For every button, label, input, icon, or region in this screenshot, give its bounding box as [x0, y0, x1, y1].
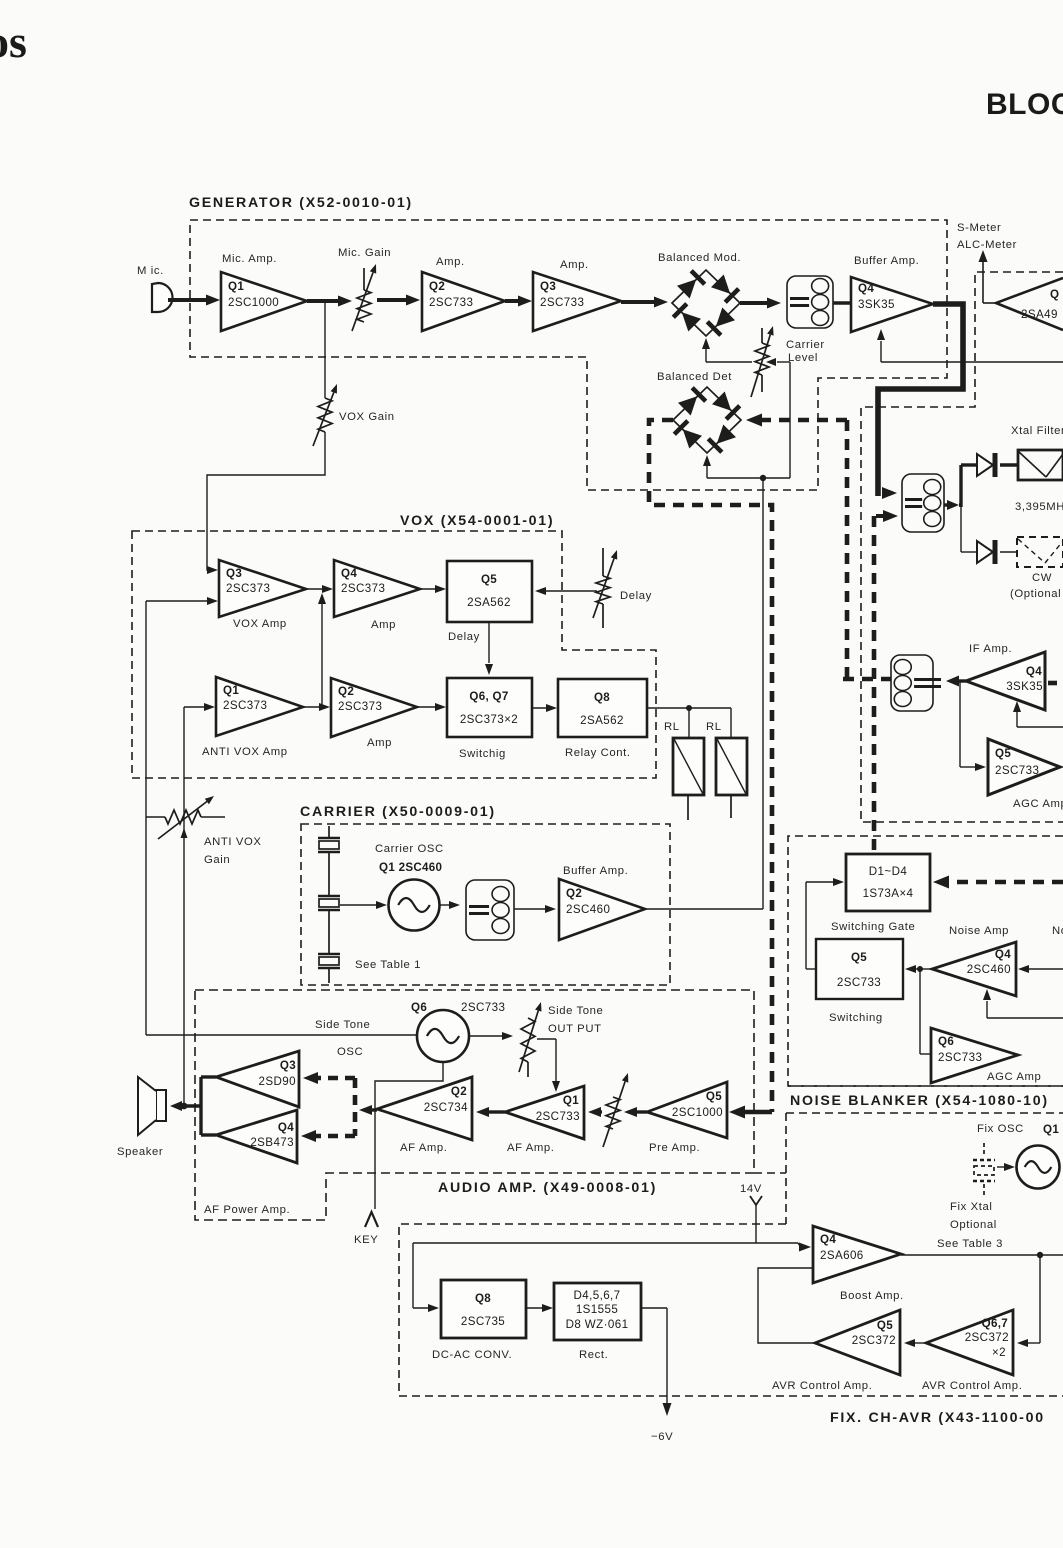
power transistor Q3 2SD90: [216, 1051, 299, 1107]
crystal X1: [318, 838, 340, 852]
wire rectifier to -6V: [641, 1308, 672, 1416]
heavy dashed link to T2 coil: [843, 677, 891, 682]
wire carrier osc riser: [762, 478, 764, 909]
svg-text:AF Amp.: AF Amp.: [507, 1142, 555, 1154]
wire audio bus left vertical: [145, 601, 147, 1035]
wire boost amp output rail: [901, 1252, 1063, 1258]
wire Q3 to balanced modulator: [621, 297, 668, 308]
thick wire Q4 buffer output to IF transformer T2 (transmit path): [878, 304, 963, 499]
svg-text:Q4: Q4: [278, 1121, 294, 1134]
IF transformer T2: [902, 474, 944, 532]
svg-text:GENERATOR (X52-0010-01): GENERATOR (X52-0010-01): [189, 195, 413, 211]
svg-text:ANTI VOX: ANTI VOX: [204, 836, 262, 848]
svg-text:Q5: Q5: [706, 1090, 722, 1103]
dashed band noise blanker title top: [788, 1085, 1063, 1087]
svg-text:Fix OSC: Fix OSC: [977, 1123, 1024, 1135]
section title FIX CH-AVR: [830, 1410, 1045, 1426]
svg-text:Q2: Q2: [451, 1085, 467, 1098]
svg-text:AVR Control Amp.: AVR Control Amp.: [772, 1380, 872, 1392]
dashed link audio box to noise blanker edge: [754, 1172, 786, 1174]
heavy dashed receive line into balanced det: [746, 414, 847, 427]
wire mic to Q1: [168, 295, 220, 306]
svg-text:Q8: Q8: [475, 1292, 491, 1305]
svg-text:AVR Control Amp.: AVR Control Amp.: [922, 1380, 1022, 1392]
wire carrier into balanced det bottom: [703, 455, 790, 478]
svg-text:Q3: Q3: [540, 280, 556, 293]
crystal X2: [318, 896, 340, 910]
svg-text:NOISE BLANKER (X54-1080-10): NOISE BLANKER (X54-1080-10): [790, 1093, 1049, 1109]
svg-text:Pre Amp.: Pre Amp.: [649, 1142, 700, 1154]
section title AUDIO AMP: [438, 1180, 657, 1196]
svg-text:2SC373: 2SC373: [223, 699, 267, 712]
svg-text:2SC733: 2SC733: [536, 1110, 580, 1123]
svg-text:Level: Level: [788, 352, 818, 364]
svg-text:2SC373: 2SC373: [226, 582, 270, 595]
svg-text:Q4: Q4: [820, 1233, 836, 1246]
svg-text:2SC372: 2SC372: [965, 1331, 1009, 1344]
svg-text:1S1555: 1S1555: [576, 1303, 618, 1316]
wire VOX gain to Q3 input: [207, 432, 325, 574]
wire noise amp input from right: [1018, 964, 1063, 975]
label fix xtal optional: [937, 1201, 1003, 1250]
variable resistor Side Tone OUT PUT: [519, 1002, 603, 1077]
svg-text:ALC-Meter: ALC-Meter: [957, 239, 1017, 251]
wire branch to AGC amp Q5: [960, 681, 986, 771]
diode D (cw filter): [977, 540, 1017, 564]
svg-text:OSC: OSC: [337, 1046, 363, 1058]
wire branch down to AGC amp Q6: [920, 969, 931, 1054]
svg-text:S-Meter: S-Meter: [957, 222, 1001, 234]
transistor boost amp Q4 2SA606: [813, 1226, 904, 1302]
balanced modulator diode ring: [658, 252, 741, 336]
heavy dashed stub right of IF amp: [1048, 681, 1063, 686]
wire audio line into VOX amp: [146, 597, 218, 605]
section box GENERATOR (X52-0010-01): [190, 220, 947, 490]
svg-text:Q4: Q4: [995, 948, 1011, 961]
svg-text:Side Tone: Side Tone: [548, 1005, 603, 1017]
svg-text:3SK35: 3SK35: [858, 298, 895, 311]
svg-text:Q8: Q8: [594, 691, 610, 704]
svg-text:VOX Gain: VOX Gain: [339, 411, 395, 423]
variable resistor ANTI VOX Gain: [146, 796, 262, 866]
wire Q5 down to Q6Q7: [485, 622, 493, 675]
svg-text:Q2: Q2: [429, 280, 445, 293]
svg-text:Q1: Q1: [228, 280, 244, 293]
transistor ANTI VOX amp Q1 2SC373: [202, 677, 303, 758]
section title VOX: [400, 513, 554, 529]
section box CARRIER (X50-0009-01): [301, 824, 670, 985]
FET amp Q4 3SK35 (Buffer Amp.): [851, 255, 933, 332]
delay box Q5 2SA562: [447, 561, 532, 643]
svg-text:AGC Amp: AGC Amp: [1013, 798, 1063, 810]
transistor noise amp Q4 2SC460: [932, 925, 1063, 996]
svg-text:Q3: Q3: [280, 1059, 296, 1072]
section title NOISE BLANKER: [790, 1093, 1049, 1109]
section box VOX (X54-0001-01): [132, 531, 656, 778]
svg-text:2SC733: 2SC733: [995, 764, 1039, 777]
svg-text:AF Amp.: AF Amp.: [400, 1142, 448, 1154]
svg-text:Amp.: Amp.: [436, 256, 465, 268]
svg-text:2SC460: 2SC460: [566, 903, 610, 916]
wire transformer to Q4: [833, 301, 851, 304]
wire carrier level wiper feed: [789, 362, 791, 478]
svg-text:Q6,7: Q6,7: [982, 1317, 1008, 1330]
svg-text:Carrier OSC: Carrier OSC: [375, 843, 444, 855]
wire IF amp to T3: [946, 676, 966, 687]
wire osc to transformer: [440, 901, 460, 909]
svg-text:AGC Amp: AGC Amp: [987, 1071, 1041, 1083]
transistor AF amp Q2 2SC734: [377, 1077, 472, 1154]
svg-text:2SC460: 2SC460: [967, 963, 1011, 976]
svg-text:Boost Amp.: Boost Amp.: [840, 1290, 904, 1302]
svg-text:Switching: Switching: [829, 1012, 883, 1024]
wire Q1 output to Mic.Gain with junction node: [307, 296, 352, 307]
crystal X3: [318, 954, 340, 968]
svg-text:Optional: Optional: [950, 1219, 997, 1231]
variable resistor AF Gain: [603, 1073, 628, 1147]
wire anti-vox join arrow up: [318, 593, 326, 707]
svg-text:Balanced Mod.: Balanced Mod.: [658, 252, 741, 264]
node junction carrier feed: [760, 475, 766, 481]
wire T2 to crystal filter splitter: [944, 500, 961, 510]
svg-text:Gain: Gain: [204, 854, 230, 866]
svg-text:Amp: Amp: [367, 737, 392, 749]
dashed box around meter amp and IF strip right edge: [861, 272, 1063, 822]
wire balanced mod bottom L-link: [702, 338, 752, 362]
wire crystals to carrier osc: [340, 901, 387, 909]
svg-text:Q6: Q6: [411, 1001, 427, 1014]
svg-text:2SA562: 2SA562: [467, 596, 511, 609]
label -6V: [651, 1431, 673, 1443]
wire Q1 to Q2: [303, 703, 330, 711]
transistor buffer amp Q2 2SC460: [559, 865, 645, 940]
svg-text:Balanced Det: Balanced Det: [657, 371, 732, 383]
wire Q6Q7 to Q8 relay cont: [532, 704, 557, 712]
rectifier box D4,5,6,7 1S1555 D8 WZ-061: [554, 1283, 641, 1361]
AGC wire into Q4 buffer bottom: [877, 329, 1063, 362]
svg-text:Q4: Q4: [1026, 665, 1042, 678]
svg-text:Noise Amp: Noise Amp: [949, 925, 1009, 937]
dashed border noise blanker title band bottom: [786, 1113, 1063, 1224]
AGC feed wire into IF amp bottom: [1013, 701, 1063, 727]
svg-text:D8 WZ·061: D8 WZ·061: [566, 1318, 629, 1331]
svg-text:M ic.: M ic.: [137, 265, 164, 277]
balanced detector diode ring: [657, 371, 741, 453]
svg-text:2SC372: 2SC372: [852, 1334, 896, 1347]
svg-text:2SC733: 2SC733: [461, 1001, 505, 1014]
svg-text:Switching Gate: Switching Gate: [831, 921, 915, 933]
svg-text:2SC735: 2SC735: [461, 1315, 505, 1328]
wire carrier buffer output: [645, 908, 763, 910]
svg-text:See Table 1: See Table 1: [355, 959, 421, 971]
svg-text:Carrier: Carrier: [786, 339, 825, 351]
section title GENERATOR: [189, 195, 413, 211]
wire fix xtal to osc: [997, 1163, 1015, 1171]
svg-text:Relay Cont.: Relay Cont.: [565, 747, 631, 759]
wire Q2 to Q3: [505, 296, 532, 307]
svg-text:Switchig: Switchig: [459, 748, 506, 760]
svg-text:Q1: Q1: [563, 1094, 579, 1107]
svg-text:CARRIER (X50-0009-01): CARRIER (X50-0009-01): [300, 804, 496, 820]
svg-text:Amp.: Amp.: [560, 259, 589, 271]
relay RL 1: [664, 721, 704, 820]
svg-text:3SK35: 3SK35: [1006, 680, 1043, 693]
IF transformer T3 (receive): [891, 655, 941, 711]
wire Q8 to relays: [647, 705, 731, 738]
DC-AC converter box Q8 2SC735: [432, 1280, 526, 1361]
FET IF amp Q4 3SK35: [966, 643, 1045, 710]
svg-text:Q4: Q4: [341, 567, 357, 580]
section title CARRIER: [300, 804, 496, 820]
svg-text:2SC734: 2SC734: [424, 1101, 468, 1114]
wire Q8 to rectifier: [526, 1304, 553, 1312]
wire side tone pot into AF amp Q1: [537, 1039, 560, 1092]
svg-text:D4,5,6,7: D4,5,6,7: [573, 1289, 620, 1302]
svg-text:DC-AC CONV.: DC-AC CONV.: [432, 1349, 512, 1361]
svg-text:FIX. CH-AVR (X43-1100-00: FIX. CH-AVR (X43-1100-00: [830, 1410, 1045, 1426]
wire side tone bus: [146, 1034, 417, 1036]
svg-text:BLOCK: BLOCK: [986, 88, 1063, 121]
svg-text:Amp: Amp: [371, 619, 396, 631]
wire into noise amp bottom: [983, 989, 1063, 1018]
wire Q1 AF out to Q2 AF: [476, 1107, 505, 1117]
wire balanced mod to IF transformer: [740, 298, 781, 309]
label AF power amp: [204, 1204, 290, 1216]
svg-text:Rect.: Rect.: [579, 1349, 608, 1361]
power transistor Q4 2SB473: [216, 1110, 297, 1163]
note see table 1: [355, 959, 421, 971]
svg-text:2SC373×2: 2SC373×2: [460, 713, 518, 726]
oscillator Q1 2SC460 (Carrier OSC): [375, 843, 444, 931]
IF transformer T1 (generator): [787, 276, 833, 328]
wire switching Q5 to gate: [806, 878, 844, 969]
svg-text:2SB473: 2SB473: [250, 1136, 294, 1149]
svg-text:RL: RL: [706, 721, 722, 733]
svg-text:Q1: Q1: [1043, 1123, 1059, 1136]
wire Q2 to Q6Q7: [417, 703, 446, 711]
switching box Q6,Q7 2SC373x2: [447, 678, 532, 760]
section box AUDIO AMP (X49-0008-01): [195, 990, 754, 1220]
variable resistor Delay: [593, 548, 652, 628]
svg-text:Speaker: Speaker: [117, 1146, 163, 1158]
wire AVR feedback into boost amp: [758, 1268, 815, 1343]
svg-text:VOX (X54-0001-01): VOX (X54-0001-01): [400, 513, 554, 529]
svg-text:Buffer Amp.: Buffer Amp.: [563, 865, 628, 877]
svg-text:Q4: Q4: [858, 282, 874, 295]
svg-text:KEY: KEY: [354, 1234, 378, 1246]
relay control box Q8 2SA562: [558, 679, 647, 759]
svg-text:Q5: Q5: [877, 1319, 893, 1332]
crystal filter 3,395MHz: [1011, 425, 1063, 513]
logo fragment "os" top-left: [0, 16, 27, 67]
svg-text:2SC1000: 2SC1000: [228, 296, 279, 309]
svg-text:Q1 2SC460: Q1 2SC460: [379, 861, 442, 874]
wire transformer to Q2 buffer: [514, 905, 556, 913]
svg-text:(Optional: (Optional: [1010, 588, 1061, 600]
transistor amp Q2 2SC733 (Amp.): [422, 256, 505, 331]
transistor amp Q4 2SC373: [334, 560, 420, 631]
transistor amp Q2 2SC373: [331, 678, 417, 749]
svg-text:Q5: Q5: [481, 573, 497, 586]
transistor VOX amp Q3 2SC373: [219, 560, 306, 630]
wire Q6,7 to Q5: [904, 1339, 926, 1347]
wire delay pot to Q5 box: [535, 587, 597, 595]
crystal bank wire: [328, 826, 330, 983]
wire anti vox gain to Q1: [184, 703, 215, 711]
dashed border noise blanker upper box: [788, 836, 1063, 1086]
svg-text:Q6: Q6: [938, 1035, 954, 1048]
svg-text:2SA562: 2SA562: [580, 714, 624, 727]
svg-text:VOX Amp: VOX Amp: [233, 618, 287, 630]
wire pre amp to AF gain: [624, 1107, 647, 1117]
wire noise amp to switching box: [905, 965, 932, 973]
wire AF gain to Q1: [588, 1107, 602, 1117]
transistor amp Q1 2SC1000 (Mic. Amp.): [221, 253, 307, 331]
svg-text:1S73A×4: 1S73A×4: [863, 887, 914, 900]
svg-text:−6V: −6V: [651, 1431, 673, 1443]
carrier output transformer: [466, 880, 514, 940]
wire rail down into Q8: [413, 1243, 439, 1312]
transistor pre amp Q5 2SC1000: [647, 1082, 727, 1154]
svg-text:2SC373: 2SC373: [341, 582, 385, 595]
svg-text:Delay: Delay: [620, 590, 652, 602]
fix oscillator Q1: [977, 1123, 1060, 1189]
svg-text:2SC733: 2SC733: [938, 1051, 982, 1064]
transistor AGC amp Q5 2SC733: [988, 739, 1063, 810]
oscillator Q6 2SC733 (Side Tone OSC): [315, 1001, 505, 1062]
svg-text:Buffer Amp.: Buffer Amp.: [854, 255, 919, 267]
svg-text:Q5: Q5: [995, 747, 1011, 760]
svg-text:Delay: Delay: [448, 631, 480, 643]
svg-text:2SC1000: 2SC1000: [672, 1106, 723, 1119]
CW optional filter (dashed): [1010, 537, 1063, 600]
svg-text:×2: ×2: [992, 1346, 1006, 1359]
svg-text:Q2: Q2: [338, 685, 354, 698]
svg-text:RL: RL: [664, 721, 680, 733]
14V input terminal: [740, 1183, 762, 1243]
svg-text:No: No: [1052, 925, 1063, 937]
heavy dashed audio return path to pre amp: [649, 420, 772, 1119]
heavy dashed branch to T1 lower input: [874, 510, 898, 854]
variable resistor VOX Gain: [313, 384, 395, 446]
heavy dashed power amp feed bus: [301, 1072, 355, 1142]
wire AVR feedback down: [1017, 1255, 1040, 1347]
KEY input terminal: [354, 1212, 378, 1246]
svg-text:Side Tone: Side Tone: [315, 1019, 370, 1031]
svg-text:2SA606: 2SA606: [820, 1249, 864, 1262]
wire side tone osc to KEY: [375, 1062, 443, 1209]
svg-text:Q1: Q1: [223, 684, 239, 697]
variable resistor Carrier Level: [751, 326, 825, 397]
heavy dashed vertical from IF strip: [845, 420, 850, 679]
svg-text:Q6, Q7: Q6, Q7: [469, 690, 508, 703]
wire Q4 to Q5 delay: [420, 585, 446, 593]
relay RL 2: [706, 721, 747, 818]
svg-text:3,395MH: 3,395MH: [1015, 501, 1063, 513]
svg-text:D1~D4: D1~D4: [869, 865, 908, 878]
transistor AVR control amp Q5 2SC372: [772, 1310, 900, 1392]
transistor AVR control amp Q6,7 2SC372x2: [922, 1310, 1022, 1392]
svg-text:Q2: Q2: [566, 887, 582, 900]
diode D (xtal filter): [977, 453, 1018, 477]
wire generator node down through VOX gain: [324, 302, 326, 398]
wire Q2 AF out to power amp bus: [359, 1105, 377, 1115]
svg-text:Fix Xtal: Fix Xtal: [950, 1201, 992, 1213]
svg-text:2SC373: 2SC373: [338, 700, 382, 713]
svg-text:14V: 14V: [740, 1183, 762, 1195]
mic input symbol: [137, 265, 173, 312]
svg-text:AF Power Amp.: AF Power Amp.: [204, 1204, 290, 1216]
svg-text:Xtal Filter: Xtal Filter: [1011, 425, 1063, 437]
speaker: [117, 1077, 166, 1158]
svg-text:CW: CW: [1032, 572, 1052, 584]
svg-text:Q3: Q3: [226, 567, 242, 580]
svg-text:Mic. Amp.: Mic. Amp.: [222, 253, 277, 265]
svg-text:IF Amp.: IF Amp.: [969, 643, 1012, 655]
heading fragment BLOCK (cut at right edge): [986, 88, 1063, 121]
wire anti vox vertical to speaker bus: [181, 707, 188, 1104]
transistor AGC amp Q6 2SC733: [931, 1028, 1041, 1083]
svg-text:OUT PUT: OUT PUT: [548, 1023, 602, 1035]
svg-text:See Table 3: See Table 3: [937, 1238, 1003, 1250]
section box FIX CH-AVR: [399, 1224, 1063, 1396]
S-Meter / ALC-Meter output: [957, 222, 1017, 303]
svg-text:2SA49: 2SA49: [1021, 308, 1058, 321]
speaker bus bold wires: [170, 1077, 216, 1135]
svg-text:2SC733: 2SC733: [540, 296, 584, 309]
svg-text:os: os: [0, 16, 27, 67]
wire Q3 to Q4: [306, 585, 333, 593]
svg-text:2SC733: 2SC733: [837, 976, 881, 989]
wire splitter to filters: [961, 465, 977, 552]
svg-text:Q: Q: [1050, 288, 1059, 301]
svg-text:Q5: Q5: [851, 951, 867, 964]
svg-text:Mic. Gain: Mic. Gain: [338, 247, 391, 259]
svg-text:2SD90: 2SD90: [259, 1075, 296, 1088]
svg-text:AUDIO AMP. (X49-0008-01): AUDIO AMP. (X49-0008-01): [438, 1180, 657, 1196]
wire Mic.Gain to Q2: [377, 295, 420, 306]
svg-text:2SC733: 2SC733: [429, 296, 473, 309]
switching gate box D1~D4 1S73A x4: [831, 854, 930, 933]
wire osc to side tone pot: [469, 1032, 513, 1040]
wire 14V rail to boost amp: [413, 1243, 811, 1252]
crystal Fix Xtal (dashed, optional): [973, 1143, 995, 1196]
variable resistor Mic. Gain: [338, 247, 391, 331]
transistor AF amp Q1 2SC733: [505, 1086, 584, 1154]
svg-text:ANTI VOX Amp: ANTI VOX Amp: [202, 746, 288, 758]
transistor amp Q3 2SC733 (Amp.): [533, 259, 621, 331]
heavy dashed gate drive from right edge: [933, 876, 1063, 889]
switching box Q5 2SC733: [816, 939, 903, 1024]
amp 2SA49x (meter amp, cut at right edge): [996, 278, 1063, 330]
